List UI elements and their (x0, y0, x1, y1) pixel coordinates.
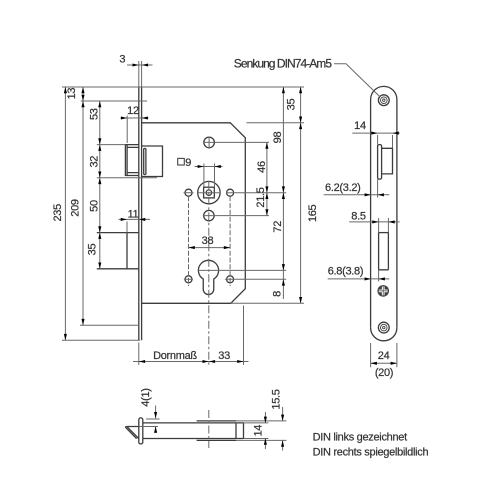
svg-text:35: 35 (87, 244, 99, 256)
svg-text:14: 14 (253, 425, 265, 437)
svg-text:98: 98 (272, 132, 284, 144)
svg-text:235: 235 (52, 204, 64, 222)
svg-text:53: 53 (88, 108, 100, 120)
svg-text:15.5: 15.5 (271, 389, 283, 409)
svg-text:35: 35 (286, 99, 298, 111)
svg-text:6.8(3.8): 6.8(3.8) (328, 266, 364, 278)
svg-text:209: 209 (70, 199, 82, 217)
svg-text:11: 11 (128, 208, 139, 220)
svg-text:33: 33 (218, 350, 230, 362)
svg-text:46: 46 (256, 161, 268, 173)
svg-text:72: 72 (272, 221, 284, 233)
svg-text:(20): (20) (375, 367, 393, 379)
svg-text:13: 13 (66, 88, 78, 100)
svg-text:14: 14 (354, 120, 366, 132)
svg-text:6.2(3.2): 6.2(3.2) (325, 182, 361, 194)
svg-text:165: 165 (307, 204, 319, 222)
svg-text:DIN links gezeichnet: DIN links gezeichnet (313, 432, 408, 444)
svg-text:8: 8 (271, 291, 283, 297)
svg-text:32: 32 (88, 156, 100, 168)
svg-text:8.5: 8.5 (351, 211, 366, 223)
svg-text:50: 50 (88, 200, 100, 212)
svg-text:21.5: 21.5 (255, 187, 267, 207)
svg-text:3: 3 (119, 54, 125, 66)
svg-text:38: 38 (202, 235, 214, 247)
svg-text:Senkung DIN74-Am5: Senkung DIN74-Am5 (234, 56, 333, 70)
svg-text:DIN rechts spiegelbildlich: DIN rechts spiegelbildlich (313, 446, 429, 458)
svg-text:4(1): 4(1) (140, 388, 152, 406)
svg-text:12: 12 (127, 105, 139, 117)
svg-text:24: 24 (378, 350, 390, 362)
svg-text:9: 9 (185, 157, 191, 169)
svg-text:Dornmaß: Dornmaß (153, 350, 197, 362)
